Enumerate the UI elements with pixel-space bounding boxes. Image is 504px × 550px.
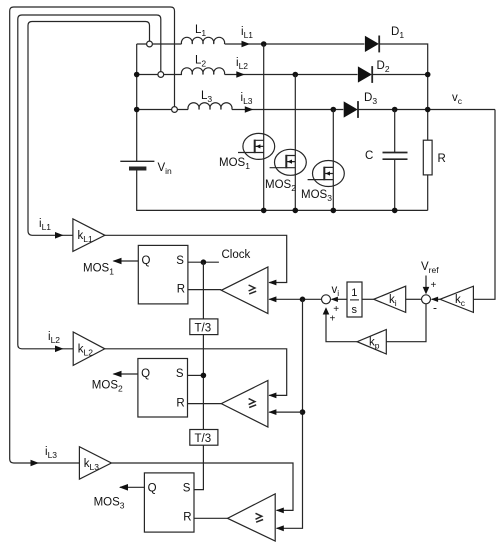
- wire: to comparator 2 lower input: [268, 409, 302, 415]
- wire: k_L3 output to comparator 3 upper input: [111, 463, 293, 513]
- transistor MOS3 (switch, drain line): [308, 110, 345, 211]
- svg-text:iL3: iL3: [45, 446, 57, 460]
- wire: D2 cathode to output node column: [372, 74, 428, 76]
- flip-flop U2 (SR latch 2): [138, 359, 188, 418]
- wire: k_L2 output to comparator 2 upper input: [105, 349, 287, 399]
- svg-text:Vref: Vref: [421, 261, 439, 275]
- svg-text:Vin: Vin: [158, 162, 173, 176]
- comparator 2: [221, 381, 268, 428]
- wire: L3 to diode D3 anode: [232, 109, 343, 111]
- node: output column junction on v_c line: [425, 107, 431, 113]
- wire: phase 2 line from bus to L2: [137, 74, 182, 76]
- wire: clock chain vertical (S bus): [194, 262, 203, 489]
- wire: v_i bus down to comparator 2 and 3: [277, 299, 303, 528]
- svg-text:iL2: iL2: [48, 331, 60, 345]
- gain k_L1: [73, 219, 105, 252]
- wire: L1 to diode D1 anode: [225, 43, 365, 45]
- svg-text:iL3: iL3: [241, 92, 253, 106]
- svg-text:-: -: [433, 301, 437, 315]
- gain k_L3: [79, 447, 111, 480]
- svg-text:D3: D3: [364, 92, 377, 106]
- node: capacitor C top junction: [392, 107, 398, 113]
- transistor MOS1 (switch, drain line): [238, 44, 275, 210]
- wire: U1 Q output to MOS1 gate: [113, 258, 139, 265]
- svg-text:iL1: iL1: [39, 218, 51, 232]
- diode D2: [358, 66, 372, 83]
- wire: inner current-sense loop i_L1 (tap to k_L1 input): [28, 22, 150, 239]
- wire: D3 cathode to output node v_c: [358, 109, 495, 111]
- wire: S2 bottom to k_p input: [386, 304, 426, 342]
- wire: bottom return rail (battery negative): [137, 168, 428, 210]
- summing junction S1 (v_i): [322, 295, 331, 304]
- wire: input bus vertical (V_in positive rail): [136, 44, 138, 161]
- inductor L1: [181, 37, 224, 44]
- wire: k_L1 output to comparator 1 upper input: [105, 235, 287, 285]
- svg-text:L2: L2: [195, 55, 206, 69]
- arrow: i_L2 direction on phase 2: [236, 71, 245, 78]
- svg-text:D2: D2: [377, 60, 390, 74]
- node: sense tap 1 (open circle): [147, 41, 153, 47]
- wire: U2 S input to T/3 chain: [188, 374, 204, 376]
- wire: comparator 2 output to U2 R input: [188, 403, 222, 405]
- wire: U2 Q output to MOS2 gate: [113, 371, 138, 378]
- arrow: i_L1 direction on phase 1: [242, 41, 251, 48]
- comparator 1: [221, 267, 268, 314]
- flip-flop U1 (SR latch 1): [138, 245, 188, 304]
- wire: phase 1 line from bus to L1: [137, 43, 182, 45]
- svg-text:L1: L1: [195, 24, 206, 38]
- svg-text:L3: L3: [201, 90, 212, 104]
- svg-text:MOS3: MOS3: [301, 189, 332, 203]
- node: capacitor C bottom on return rail: [392, 208, 398, 214]
- svg-text:vc: vc: [452, 92, 463, 106]
- wire: middle current-sense loop i_L2 (tap to k_L2 input): [18, 15, 161, 352]
- wire: S2 output to k_i: [406, 298, 422, 300]
- diode D3: [344, 101, 358, 118]
- node: MOS2 source on return rail: [293, 208, 299, 214]
- node: MOS2 drain junction on phase 2: [293, 72, 299, 78]
- summing junction S2 (voltage error): [422, 295, 431, 304]
- node: MOS1 source on return rail: [261, 208, 267, 214]
- wire: phase 3 line from bus to L3: [137, 109, 188, 111]
- capacitor C: [383, 110, 408, 211]
- arrow: into comparator 3 lower input: [276, 525, 284, 531]
- wire: k_c output into S2: [431, 297, 440, 302]
- node: v_i junction: [300, 297, 306, 303]
- gain k_c: [440, 286, 473, 312]
- node: bus junction phase 2: [134, 72, 140, 78]
- svg-text:R: R: [438, 153, 446, 165]
- svg-text:Q: Q: [148, 483, 157, 495]
- battery V_in: [120, 161, 154, 168]
- wire: k_i output to 1/s: [362, 298, 374, 300]
- node: D1/D2 cathode junction: [425, 72, 431, 78]
- node: sense tap 3 (open circle): [172, 107, 178, 113]
- svg-text:S: S: [176, 255, 184, 267]
- transistor MOS2 (switch, drain line): [270, 75, 307, 211]
- svg-text:vi: vi: [332, 284, 340, 298]
- wire: D1 cathode to output node column: [379, 44, 428, 140]
- node: bus junction phase 3: [134, 107, 140, 113]
- node: sense tap 2 (open circle): [158, 72, 164, 78]
- node: comparator 2 lower input junction: [300, 409, 306, 415]
- svg-text:Q: Q: [142, 255, 151, 267]
- integrator block 1/s: [347, 282, 362, 317]
- svg-text:MOS2: MOS2: [92, 380, 123, 394]
- svg-text:+: +: [431, 280, 437, 291]
- node: MOS1 drain junction on phase 1: [261, 41, 267, 47]
- wire: comparator 3 output to U3 R input: [194, 517, 228, 519]
- delay block T/3 (first): [190, 319, 218, 335]
- wire: comparator 1 output to U1 R input: [188, 289, 221, 291]
- svg-text:T/3: T/3: [195, 323, 212, 335]
- wire: U1 S input to clock node: [188, 261, 219, 263]
- svg-text:Clock: Clock: [222, 249, 251, 261]
- wire: U3 Q output to MOS3 gate: [119, 484, 144, 491]
- comparator 3: [228, 494, 276, 541]
- arrow: i_L3 direction on phase 3: [245, 106, 254, 113]
- svg-text:iL1: iL1: [241, 26, 253, 40]
- node: clock junction at U1 S: [201, 259, 207, 265]
- svg-text:R: R: [176, 398, 184, 410]
- flip-flop U3 (SR latch 3): [144, 473, 194, 532]
- svg-text:S: S: [176, 368, 184, 380]
- svg-text:MOS2: MOS2: [265, 179, 296, 193]
- wire: V_ref into S2 top: [423, 276, 430, 295]
- svg-text:+: +: [330, 313, 336, 324]
- svg-text:C: C: [365, 150, 373, 162]
- svg-text:Q: Q: [141, 368, 150, 380]
- delay block T/3 (second): [190, 430, 218, 446]
- node: junction at U2 S: [201, 373, 207, 379]
- wire: L2 to diode D2 anode: [225, 74, 358, 76]
- wire: 1/s output into S1: [331, 297, 347, 302]
- gain k_p: [357, 330, 386, 355]
- svg-text:T/3: T/3: [195, 433, 212, 445]
- svg-text:R: R: [183, 512, 191, 524]
- svg-text:MOS3: MOS3: [94, 497, 125, 511]
- inductor L2: [181, 68, 224, 75]
- svg-text:S: S: [183, 483, 191, 495]
- svg-text:iL2: iL2: [236, 57, 248, 71]
- wire: k_p output to S1 bottom: [323, 307, 357, 341]
- node: MOS3 drain junction on phase 3: [331, 107, 337, 113]
- wire: v_c feedback to k_c: [473, 110, 495, 300]
- svg-text:1: 1: [351, 287, 357, 299]
- svg-text:MOS1: MOS1: [219, 157, 250, 171]
- wire: outer current-sense loop i_L3 (tap to k_L3 input): [10, 7, 175, 466]
- svg-text:D1: D1: [391, 26, 404, 40]
- wire: v_i node to comparator 1 lower input: [268, 296, 321, 302]
- gain k_L2: [73, 332, 105, 365]
- inductor L3: [188, 103, 232, 110]
- diode D1: [365, 36, 379, 53]
- svg-text:R: R: [177, 284, 185, 296]
- gain k_i: [374, 286, 406, 312]
- svg-text:MOS1: MOS1: [83, 263, 114, 277]
- node: MOS3 source on return rail: [331, 208, 337, 214]
- resistor R: [423, 140, 432, 210]
- svg-text:s: s: [352, 304, 358, 316]
